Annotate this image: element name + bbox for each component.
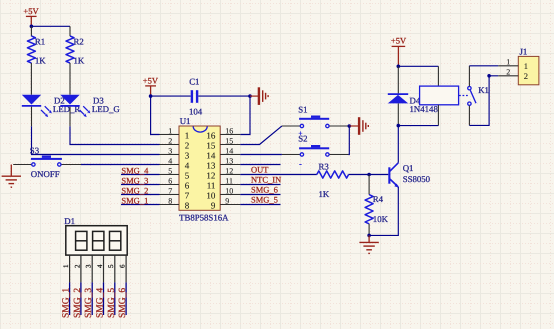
svg-text:J1: J1 bbox=[520, 46, 528, 56]
power +5V (relay) bbox=[391, 36, 407, 67]
svg-text:13: 13 bbox=[225, 156, 233, 165]
D1 pin 6 bbox=[119, 255, 127, 282]
svg-text:12: 12 bbox=[225, 166, 233, 175]
LED D2 LED_R bbox=[22, 95, 81, 117]
svg-text:NTC_IN: NTC_IN bbox=[251, 175, 281, 185]
svg-text:1K: 1K bbox=[319, 189, 330, 199]
svg-text:6: 6 bbox=[168, 176, 172, 185]
svg-text:R2: R2 bbox=[74, 37, 84, 47]
svg-text:ONOFF: ONOFF bbox=[31, 169, 60, 179]
wire net SMG_4 (D1) bbox=[96, 282, 106, 318]
svg-text:104: 104 bbox=[189, 106, 203, 116]
wire K1 bottom to J1 pin2 bbox=[469, 76, 498, 126]
svg-text:Q1: Q1 bbox=[403, 163, 414, 173]
svg-text:6: 6 bbox=[119, 264, 127, 268]
svg-text:1: 1 bbox=[185, 130, 190, 140]
svg-text:R3: R3 bbox=[319, 161, 330, 171]
power +5V (C1 rail) bbox=[143, 75, 159, 96]
svg-text:1: 1 bbox=[506, 58, 510, 67]
wire top rail R1-R2 bbox=[31, 25, 70, 27]
svg-text:5: 5 bbox=[168, 166, 172, 175]
svg-text:3: 3 bbox=[185, 150, 190, 160]
wire rail down to U1 pin16 bbox=[240, 96, 250, 134]
capacitor C1 104 bbox=[189, 77, 203, 117]
resistor R2 bbox=[66, 26, 85, 94]
switch S2 bbox=[282, 134, 349, 169]
wire S3 to U1 pin4 bbox=[81, 164, 160, 166]
svg-text:LED_G: LED_G bbox=[92, 104, 120, 114]
wire D3 cathode to U1 pin2 bbox=[69, 107, 71, 127]
J1 pin 2 bbox=[498, 68, 528, 82]
wire net SMG_6 (pin10) bbox=[240, 194, 280, 196]
relay K1 coil bbox=[420, 86, 459, 105]
display D1 bbox=[64, 216, 127, 255]
switch S1 bbox=[282, 104, 349, 137]
U1 pin 12 (right) bbox=[206, 166, 240, 180]
wire K1 top to J1 pin1 bbox=[469, 65, 498, 67]
svg-text:SMG_5: SMG_5 bbox=[251, 195, 278, 205]
svg-text:14: 14 bbox=[206, 150, 216, 160]
ground (below R4) bbox=[359, 235, 378, 253]
svg-text:U1: U1 bbox=[180, 116, 191, 126]
svg-text:S2: S2 bbox=[298, 134, 307, 144]
resistor R4 10K bbox=[365, 175, 388, 236]
svg-text:16: 16 bbox=[206, 130, 216, 140]
svg-text:SMG_3: SMG_3 bbox=[84, 288, 94, 318]
resistor R1 bbox=[27, 26, 46, 94]
svg-text:16: 16 bbox=[225, 126, 233, 135]
svg-text:SMG_1: SMG_1 bbox=[121, 196, 148, 206]
svg-text:2: 2 bbox=[168, 136, 172, 145]
wire +5V to coil top bbox=[398, 65, 438, 67]
wire net SMG_1 (U1 left) bbox=[121, 204, 160, 206]
diode D4 1N4148 bbox=[388, 66, 421, 125]
svg-text:8: 8 bbox=[185, 200, 190, 210]
LED D3 LED_G bbox=[60, 95, 120, 117]
ground (S1 S2, earth right) bbox=[349, 117, 368, 135]
svg-text:13: 13 bbox=[206, 160, 216, 170]
node +5V relay junction bbox=[397, 65, 401, 69]
svg-text:SMG_1: SMG_1 bbox=[62, 288, 72, 318]
U1 pin 8 (left) bbox=[160, 196, 190, 210]
wire S2 right up to junction bbox=[347, 126, 350, 155]
wire U1 pin13 stub bbox=[240, 164, 280, 166]
svg-text:R1: R1 bbox=[35, 37, 45, 47]
U1 pin 13 (right) bbox=[206, 156, 240, 170]
U1 pin 16 (right) bbox=[206, 126, 240, 140]
wire +5V rail to C1 and gnd bbox=[151, 95, 191, 97]
node rail left bbox=[149, 94, 153, 98]
node R4/emitter junction bbox=[367, 234, 371, 238]
U1 pin 2 (left) bbox=[160, 136, 190, 150]
svg-text:8: 8 bbox=[168, 196, 172, 205]
resistor R3 1K bbox=[317, 161, 349, 198]
svg-text:2: 2 bbox=[524, 71, 528, 81]
node rail right bbox=[248, 94, 252, 98]
connector J1 bbox=[518, 46, 539, 84]
U1 pin 15 (right) bbox=[206, 136, 240, 150]
ground (C1 rail, earth right) bbox=[250, 87, 268, 105]
svg-text:5: 5 bbox=[107, 264, 115, 268]
svg-text:7: 7 bbox=[185, 190, 190, 200]
U1 pin 9 (right) bbox=[211, 196, 240, 210]
svg-text:14: 14 bbox=[225, 146, 233, 155]
svg-text:2: 2 bbox=[506, 68, 510, 77]
svg-text:3: 3 bbox=[85, 264, 93, 268]
svg-text:SMG_3: SMG_3 bbox=[121, 176, 148, 186]
wire net NTC_IN (pin11) bbox=[240, 184, 280, 186]
wire net SMG_6 (D1) bbox=[118, 282, 128, 318]
wire net OUT (pin12 to R3) bbox=[240, 174, 316, 176]
svg-text:2: 2 bbox=[185, 140, 190, 150]
svg-text:4: 4 bbox=[168, 156, 172, 165]
svg-text:10: 10 bbox=[225, 186, 233, 195]
svg-text:12: 12 bbox=[206, 170, 215, 180]
U1 pin 11 (right) bbox=[207, 176, 241, 190]
svg-text:SMG_2: SMG_2 bbox=[121, 186, 148, 196]
svg-text:SMG_6: SMG_6 bbox=[251, 185, 278, 195]
wire R3 to Q1 base bbox=[349, 174, 389, 176]
power +5V (top-left) bbox=[23, 6, 39, 26]
svg-text:9: 9 bbox=[211, 200, 216, 210]
U1 pin 14 (right) bbox=[206, 146, 240, 160]
ground (S3 left) bbox=[2, 165, 21, 188]
wire net SMG_4 (U1 left) bbox=[121, 174, 160, 176]
U1 pin 3 (left) bbox=[160, 146, 190, 160]
svg-text:R4: R4 bbox=[373, 194, 384, 204]
svg-text:SMG_5: SMG_5 bbox=[107, 288, 117, 318]
wire net SMG_5 (pin9) bbox=[240, 204, 280, 206]
wire rail down to U1 pin1 bbox=[151, 96, 160, 134]
D1 pin 4 bbox=[96, 255, 104, 282]
wire net SMG_2 (U1 left) bbox=[121, 194, 160, 196]
svg-text:15: 15 bbox=[206, 140, 216, 150]
svg-text:D1: D1 bbox=[64, 216, 75, 226]
U1 pin 6 (left) bbox=[160, 176, 190, 190]
svg-text:OUT: OUT bbox=[251, 165, 269, 175]
transistor Q1 SS8050 bbox=[388, 163, 430, 188]
svg-text:C1: C1 bbox=[189, 77, 199, 87]
wire U1 pin15 to S1 (diagonal) bbox=[240, 126, 282, 145]
svg-text:11: 11 bbox=[207, 180, 216, 190]
svg-text:5: 5 bbox=[185, 170, 190, 180]
svg-text:TB8P58S16A: TB8P58S16A bbox=[179, 212, 229, 222]
svg-text:SMG_4: SMG_4 bbox=[96, 288, 106, 318]
svg-text:+5V: +5V bbox=[23, 6, 39, 16]
svg-text:S1: S1 bbox=[298, 104, 307, 114]
D1 pin 1 bbox=[62, 255, 70, 282]
svg-text:SMG_6: SMG_6 bbox=[118, 288, 128, 318]
svg-text:6: 6 bbox=[185, 180, 190, 190]
svg-text:K1: K1 bbox=[478, 85, 489, 95]
svg-text:1: 1 bbox=[524, 61, 528, 71]
D1 pin 5 bbox=[107, 255, 115, 282]
svg-text:4: 4 bbox=[96, 264, 104, 268]
U1 pin 7 (left) bbox=[160, 186, 190, 200]
wire coil top pin bbox=[437, 66, 439, 86]
node coil/diode bottom junction bbox=[397, 124, 401, 128]
svg-text:2: 2 bbox=[73, 264, 81, 268]
U1 pin 10 (right) bbox=[206, 186, 240, 200]
wire coil bottom pin bbox=[437, 105, 439, 126]
svg-text:9: 9 bbox=[225, 196, 229, 205]
U1 pin 5 (left) bbox=[160, 166, 190, 180]
svg-text:1N4148: 1N4148 bbox=[410, 104, 439, 114]
svg-text:10K: 10K bbox=[373, 214, 389, 224]
svg-text:3: 3 bbox=[168, 146, 172, 155]
D1 pin 3 bbox=[85, 255, 93, 282]
wire net SMG_1 (D1) bbox=[62, 282, 72, 318]
wire net SMG_3 (D1) bbox=[84, 282, 94, 318]
D1 pin 2 bbox=[73, 255, 81, 282]
node top rail junction bbox=[30, 25, 34, 29]
node S1/S2 ground junction bbox=[348, 124, 352, 128]
svg-text:S3: S3 bbox=[30, 146, 40, 156]
svg-text:1K: 1K bbox=[74, 56, 85, 66]
wire U1 pin14 to S2 bbox=[240, 154, 282, 156]
wire net SMG_5 (D1) bbox=[107, 282, 117, 318]
svg-text:SS8050: SS8050 bbox=[403, 174, 431, 184]
svg-text:1K: 1K bbox=[35, 56, 46, 66]
svg-text:15: 15 bbox=[225, 136, 233, 145]
op-amp U1 TB8P58S16A body bbox=[179, 116, 229, 222]
wire coil bottom to collector bbox=[398, 125, 438, 127]
wire net SMG_2 (D1) bbox=[73, 282, 83, 318]
J1 pin 1 bbox=[498, 58, 528, 72]
wire net SMG_3 (U1 left) bbox=[121, 184, 160, 186]
svg-text:SMG_2: SMG_2 bbox=[73, 288, 83, 318]
wire Q1 emitter down to ground rail bbox=[369, 187, 398, 235]
node R3/R4 junction bbox=[367, 173, 371, 177]
relay K1 contact bbox=[459, 66, 489, 126]
svg-text:SMG_4: SMG_4 bbox=[121, 166, 149, 176]
svg-text:10: 10 bbox=[206, 190, 216, 200]
wire D2 cathode to U1 pin3 bbox=[31, 107, 33, 127]
svg-text:-: - bbox=[299, 160, 302, 169]
svg-text:+5V: +5V bbox=[143, 75, 159, 85]
svg-text:11: 11 bbox=[225, 176, 233, 185]
switch S3 ONOFF bbox=[13, 146, 81, 179]
svg-text:1: 1 bbox=[62, 264, 70, 268]
svg-text:+5V: +5V bbox=[391, 36, 407, 46]
svg-text:7: 7 bbox=[168, 186, 172, 195]
wire Q1 collector up bbox=[397, 126, 399, 163]
svg-text:4: 4 bbox=[185, 160, 190, 170]
U1 pin 4 (left) bbox=[160, 156, 190, 170]
svg-text:1: 1 bbox=[168, 126, 172, 135]
U1 pin 1 (left) bbox=[160, 126, 190, 140]
node J1 pin2 junction bbox=[487, 74, 491, 78]
